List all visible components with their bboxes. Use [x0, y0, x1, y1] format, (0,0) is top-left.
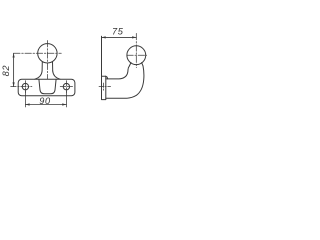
front view: boss outline U shape	[39, 79, 56, 94]
dimension 75 arrowheads	[102, 36, 137, 38]
side view: bar hole center cross	[99, 83, 111, 90]
side view: tow ball sphere	[127, 46, 146, 65]
side view: bar top step fillet to arm top edge	[105, 76, 107, 79]
side view: inner edge rising to collar	[128, 66, 129, 70]
dimension 90 line	[25, 104, 66, 106]
front view: left hole center cross	[11, 81, 32, 93]
front view: tow ball sphere	[38, 44, 57, 63]
side view: ball vertical center line	[135, 33, 137, 67]
svg-text:82: 82	[1, 65, 11, 77]
front view: left hole	[22, 83, 28, 89]
dimension 90 extension lines	[25, 90, 66, 107]
side view: arm outer edge with outer elbow and bottom edge	[106, 66, 144, 98]
svg-text:90: 90	[39, 96, 51, 106]
side view: vertical mounting bar with 75-dim extension line	[102, 36, 106, 99]
front view: neck below ball	[42, 62, 53, 71]
dimension 75 line	[102, 36, 137, 38]
front view: ball horizontal center line	[14, 52, 62, 54]
dimension 82 arrowheads	[13, 53, 15, 86]
front view: right hole	[63, 83, 69, 89]
dimension 82 line	[13, 53, 15, 86]
dimension 90 arrowheads	[25, 103, 66, 105]
front view: base plate	[18, 79, 75, 96]
side view: arm top edge with inner elbow	[106, 70, 128, 79]
front view: ball vertical center line	[46, 41, 48, 80]
svg-text:75: 75	[112, 26, 124, 36]
side view: neck and collar below ball	[129, 63, 143, 66]
front view: right hole center cross	[60, 81, 72, 93]
side view: ball horizontal center line	[127, 54, 147, 56]
front view: neck flare fillets to plate	[35, 71, 60, 79]
